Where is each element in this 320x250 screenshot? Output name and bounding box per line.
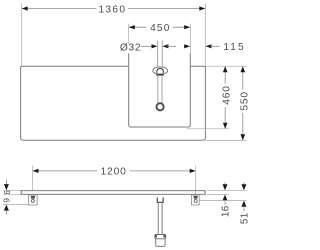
svg-text:1360: 1360 (98, 5, 126, 16)
dimension 115 (184, 42, 246, 53)
svg-text:460: 460 (221, 85, 232, 104)
svg-text:115: 115 (223, 42, 245, 53)
faucet hole extension lines (158, 41, 163, 67)
drain tailpiece fitting (elevation) (157, 197, 163, 202)
extension lines for 1200 (33, 166, 196, 195)
left extension lines (3, 190, 29, 204)
label Ø32 with leader arrows (120, 42, 176, 53)
drain ring (top view) (157, 103, 164, 110)
svg-text:51: 51 (239, 212, 250, 224)
dimension 450 (129, 23, 190, 34)
drain pipe (elevation) (158, 203, 162, 235)
svg-text:450: 450 (150, 23, 170, 34)
svg-text:1200: 1200 (100, 166, 126, 177)
right extension lines (elevation) (199, 190, 247, 200)
faucet escutcheon ellipse (top view) (153, 67, 168, 74)
console slab (front elevation) (21, 191, 206, 195)
faucet handle arc (157, 68, 164, 72)
svg-text:550: 550 (239, 91, 250, 110)
console plate outline (top view) (21, 66, 206, 140)
basin outline (top view) (129, 53, 191, 127)
trap cup (156, 239, 165, 247)
dimension 1200 (33, 166, 196, 177)
svg-text:16: 16 (221, 205, 232, 217)
dimension 16 (slab thickness) (221, 183, 232, 218)
extension lines for 1360 (22, 3, 206, 66)
svg-text:6: 6 (2, 198, 12, 203)
svg-text:Ø32: Ø32 (120, 42, 141, 53)
dimension 1360 (22, 5, 206, 16)
extension line for 460 (basin front) (187, 128, 230, 130)
dimension 550 (239, 66, 250, 140)
right wall bracket (191, 195, 199, 205)
left wall bracket (29, 195, 38, 205)
trap collar nut (155, 235, 166, 239)
faucet supply pipe (top view) (158, 76, 162, 104)
extension lines for 550/460 top and bottom (205, 66, 246, 140)
dimension 51 (with bracket) (239, 183, 250, 225)
faucet base bar (156, 74, 164, 76)
dimension 460 (221, 66, 232, 129)
extension lines for 450 (129, 24, 191, 54)
left height dimensions 9 and 6 (2, 180, 13, 215)
